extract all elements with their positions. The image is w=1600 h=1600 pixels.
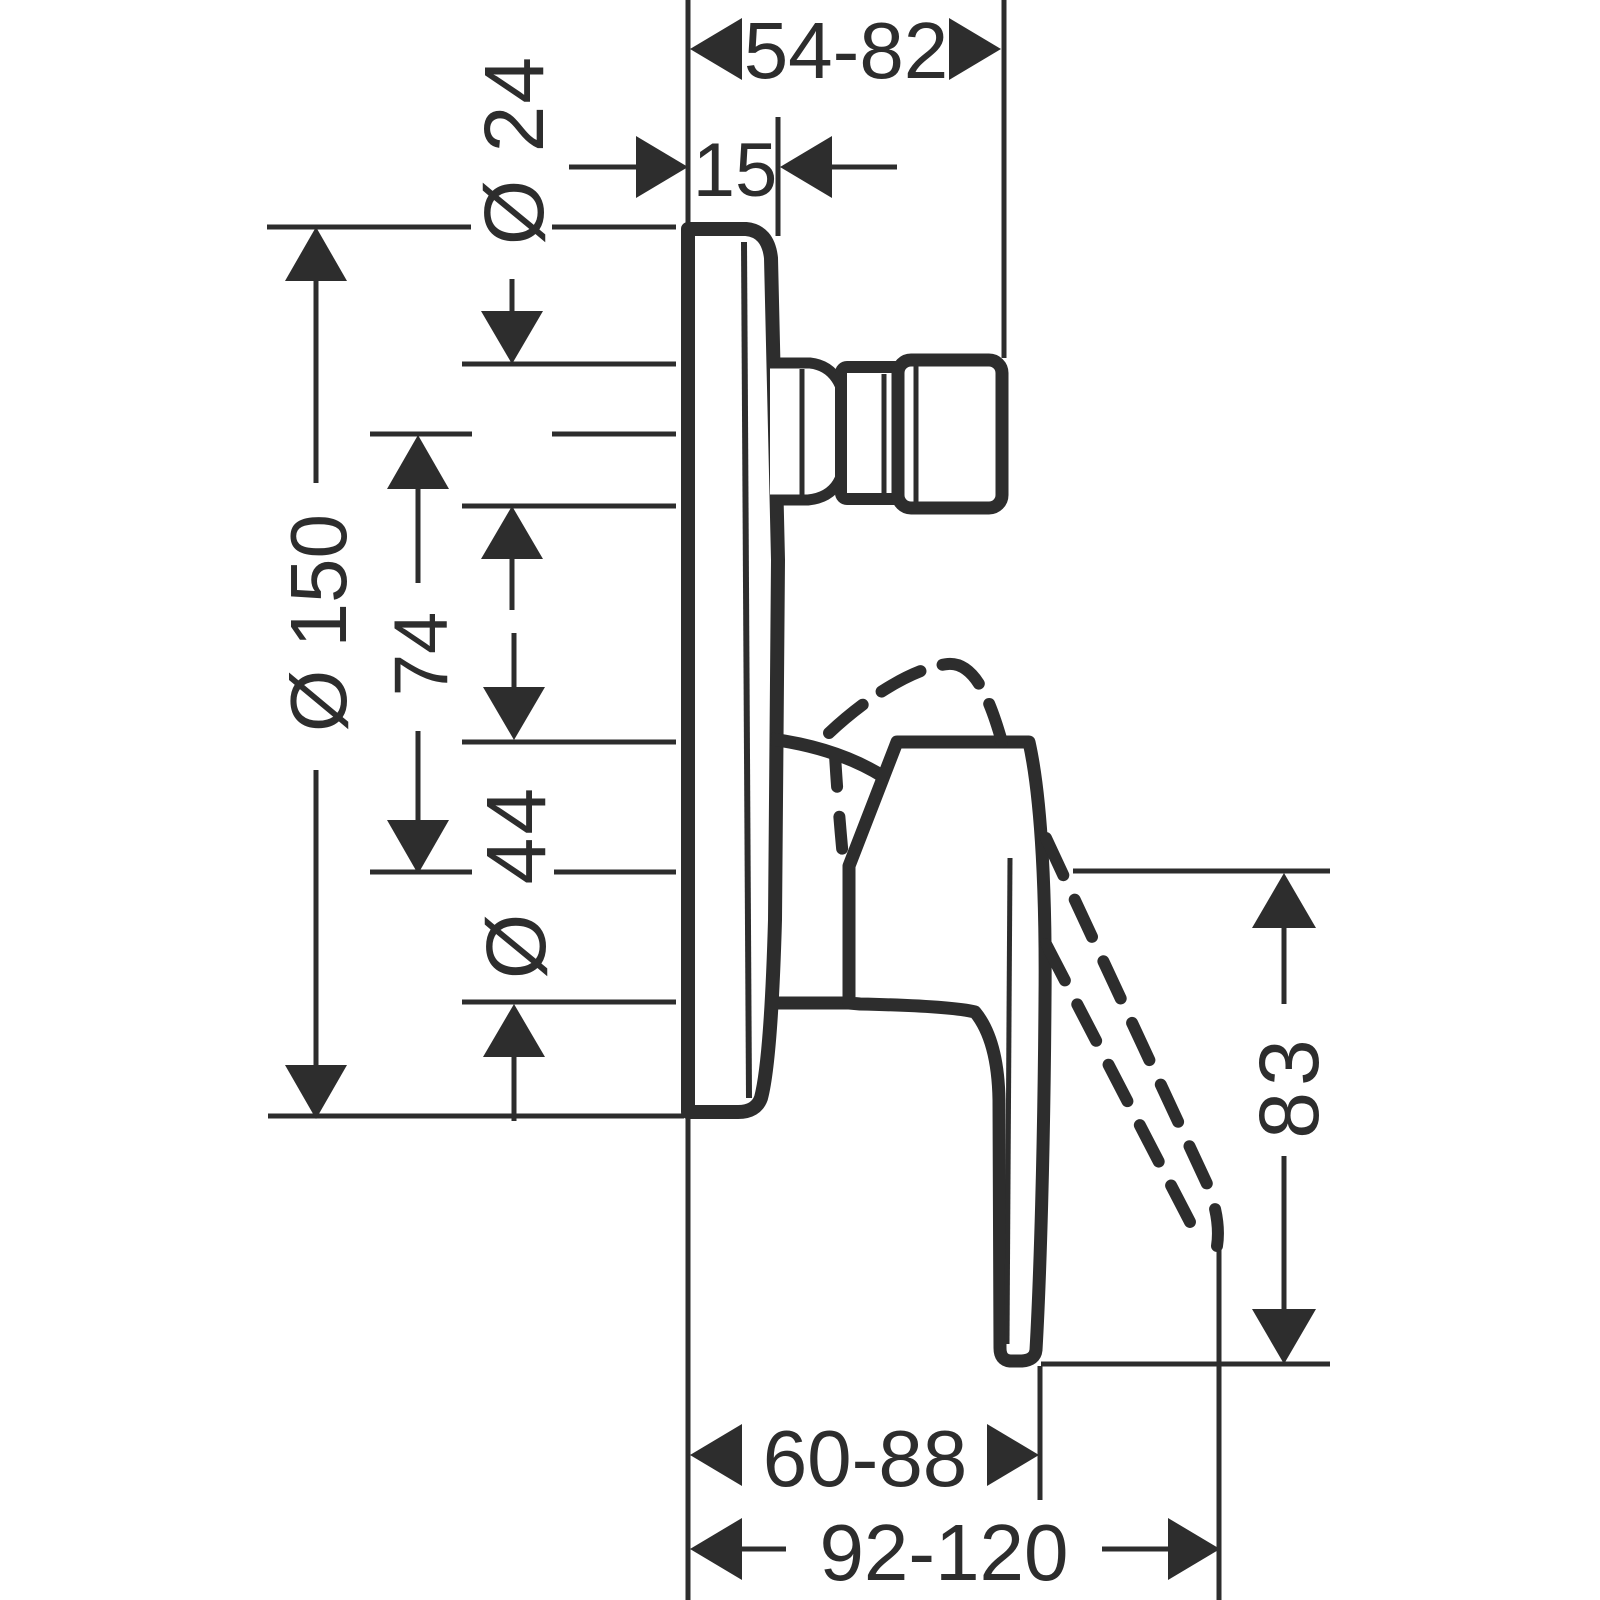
dim 92-120 left tail <box>742 1547 786 1552</box>
tick line handle bottom (Ø44 bottom ref) <box>462 1000 676 1005</box>
dashed handle head (raised position) <box>829 664 1002 742</box>
tick line plate top (Ø150 top ref) <box>267 225 676 230</box>
svg-text:92-120: 92-120 <box>819 1508 1068 1597</box>
dim 15 left arrow <box>636 136 688 198</box>
tick line handle axis (74 bottom ref) <box>370 870 676 875</box>
svg-text:Ø 150: Ø 150 <box>274 514 363 732</box>
dim 15 right arrow tail <box>832 165 897 170</box>
handle base dome arc <box>771 739 884 777</box>
dim 54-82 right arrow <box>949 18 1001 80</box>
escutcheon plate (side view) <box>688 229 778 1112</box>
plate face inner line <box>744 242 749 1098</box>
dashed lever lower line (raised position) <box>1046 944 1190 1222</box>
svg-text:83: 83 <box>1242 1033 1336 1138</box>
dim Ø44 top arrow tail <box>512 633 517 691</box>
dim Ø24 bottom arrow (up) <box>481 506 543 559</box>
svg-text:Ø 44: Ø 44 <box>469 785 563 979</box>
dim 54-82 left arrow <box>690 18 742 80</box>
svg-text:Ø 24: Ø 24 <box>467 55 561 245</box>
handle inner edge line <box>1007 858 1010 1344</box>
dim Ø150 top arrow tail <box>314 277 319 483</box>
dim Ø44 bottom arrow tail <box>512 1053 517 1121</box>
dim 60-88 left arrow <box>690 1424 742 1486</box>
diverter knob middle section <box>841 367 906 499</box>
dashed handle left edge (raised position) <box>835 755 843 858</box>
dim Ø150 bottom arrow (down) <box>285 1065 347 1119</box>
dim 92-120 left arrow <box>690 1518 742 1580</box>
dim 92-120 right tail <box>1102 1547 1168 1552</box>
dim 74 top arrow (up) <box>387 435 449 489</box>
dim 83 top arrow tail <box>1282 924 1287 1004</box>
tick line knob bottom (Ø24 bottom ref) <box>462 504 676 509</box>
dim 83 bottom arrow tail <box>1282 1156 1287 1313</box>
dim 60-88 right arrow <box>987 1424 1039 1486</box>
tick line knob top (Ø24 top ref) <box>462 362 676 367</box>
svg-text:54-82: 54-82 <box>744 6 949 95</box>
dim 92-120 right arrow <box>1168 1518 1220 1580</box>
dim 83 bottom arrow (down) <box>1252 1309 1316 1364</box>
extension line dashed lever tip (92-120 dim) <box>1217 1248 1222 1600</box>
tick line plate bottom (Ø150 bottom ref) <box>268 1114 684 1119</box>
knob outer detail line <box>914 366 919 502</box>
diverter knob cone section <box>770 363 846 500</box>
tick line knob axis (74 top ref) <box>370 432 676 437</box>
dim 15 right arrow <box>780 136 832 198</box>
dim 74 top arrow tail <box>416 485 421 583</box>
dim Ø24 top arrow (down) <box>481 311 543 364</box>
dim Ø24 top arrow tail <box>510 279 515 315</box>
diverter knob outer section <box>898 360 1002 508</box>
dim 74 bottom arrow tail <box>416 731 421 824</box>
dim 15 left arrow tail <box>569 165 636 170</box>
dim 83 top arrow (up) <box>1252 873 1316 928</box>
knob cone detail line <box>800 369 805 495</box>
extension line plate front face (15 dim) <box>776 117 781 236</box>
dim Ø150 top arrow (up) <box>285 227 347 281</box>
dim Ø44 top arrow (down) <box>483 687 545 740</box>
dim Ø150 bottom arrow tail <box>314 770 319 1069</box>
83 dim top ref line (handle axis right) <box>1073 869 1330 874</box>
handle body and lever (solid) <box>849 742 1045 1361</box>
svg-text:15: 15 <box>693 128 778 213</box>
knob middle detail line <box>882 374 887 493</box>
wall extension line (left vertical, full height) <box>686 0 691 1600</box>
dim Ø24 bottom arrow tail <box>510 555 515 610</box>
dim 74 bottom arrow (down) <box>387 820 449 874</box>
extension line knob face (top right vertical) <box>1002 0 1007 358</box>
dashed lever upper line (raised position) <box>1046 838 1218 1246</box>
svg-text:60-88: 60-88 <box>763 1414 968 1503</box>
svg-text:74: 74 <box>379 612 464 697</box>
handle base bottom line <box>765 997 850 1010</box>
83 dim bottom ref line (lever tip) <box>1041 1362 1330 1367</box>
extension line lever tip (60-88 dim) <box>1038 1366 1043 1500</box>
dim Ø44 bottom arrow (up) <box>483 1004 545 1057</box>
tick line handle top (Ø44 top ref) <box>462 740 676 745</box>
